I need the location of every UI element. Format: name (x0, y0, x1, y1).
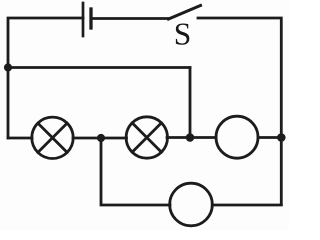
wire left rail to lamp L1 (8, 137, 32, 140)
lamp L2 (126, 117, 167, 158)
wire M1 to node D (258, 136, 281, 139)
battery (83, 3, 91, 36)
node B (junction to bottom branch) (97, 134, 105, 142)
svg-text:S: S (174, 16, 192, 51)
wire bottom branch: node B down and across (101, 138, 170, 205)
wire node B to lamp L2 (101, 137, 127, 140)
node A (left rail junction) (4, 63, 12, 71)
meter M1 (blank circle) (216, 116, 258, 158)
wire battery to switch (91, 17, 169, 20)
node D (right rail junction) (277, 133, 286, 142)
node C (junction with vertical drop) (186, 133, 195, 142)
wire middle horizontal from node A (8, 66, 190, 69)
wire L1 to node B (73, 137, 101, 140)
wire L2 to node C (167, 136, 216, 139)
wire vertical drop to lamp row (189, 68, 192, 138)
wire top-left: left rail top (8, 18, 83, 138)
lamp L1 (32, 117, 73, 158)
wire M2 to bottom-right corner (212, 204, 281, 207)
switch S (169, 6, 201, 20)
meter M2 (blank circle, bottom) (170, 183, 213, 226)
wire switch to top-right corner and right rail down (198, 18, 281, 205)
